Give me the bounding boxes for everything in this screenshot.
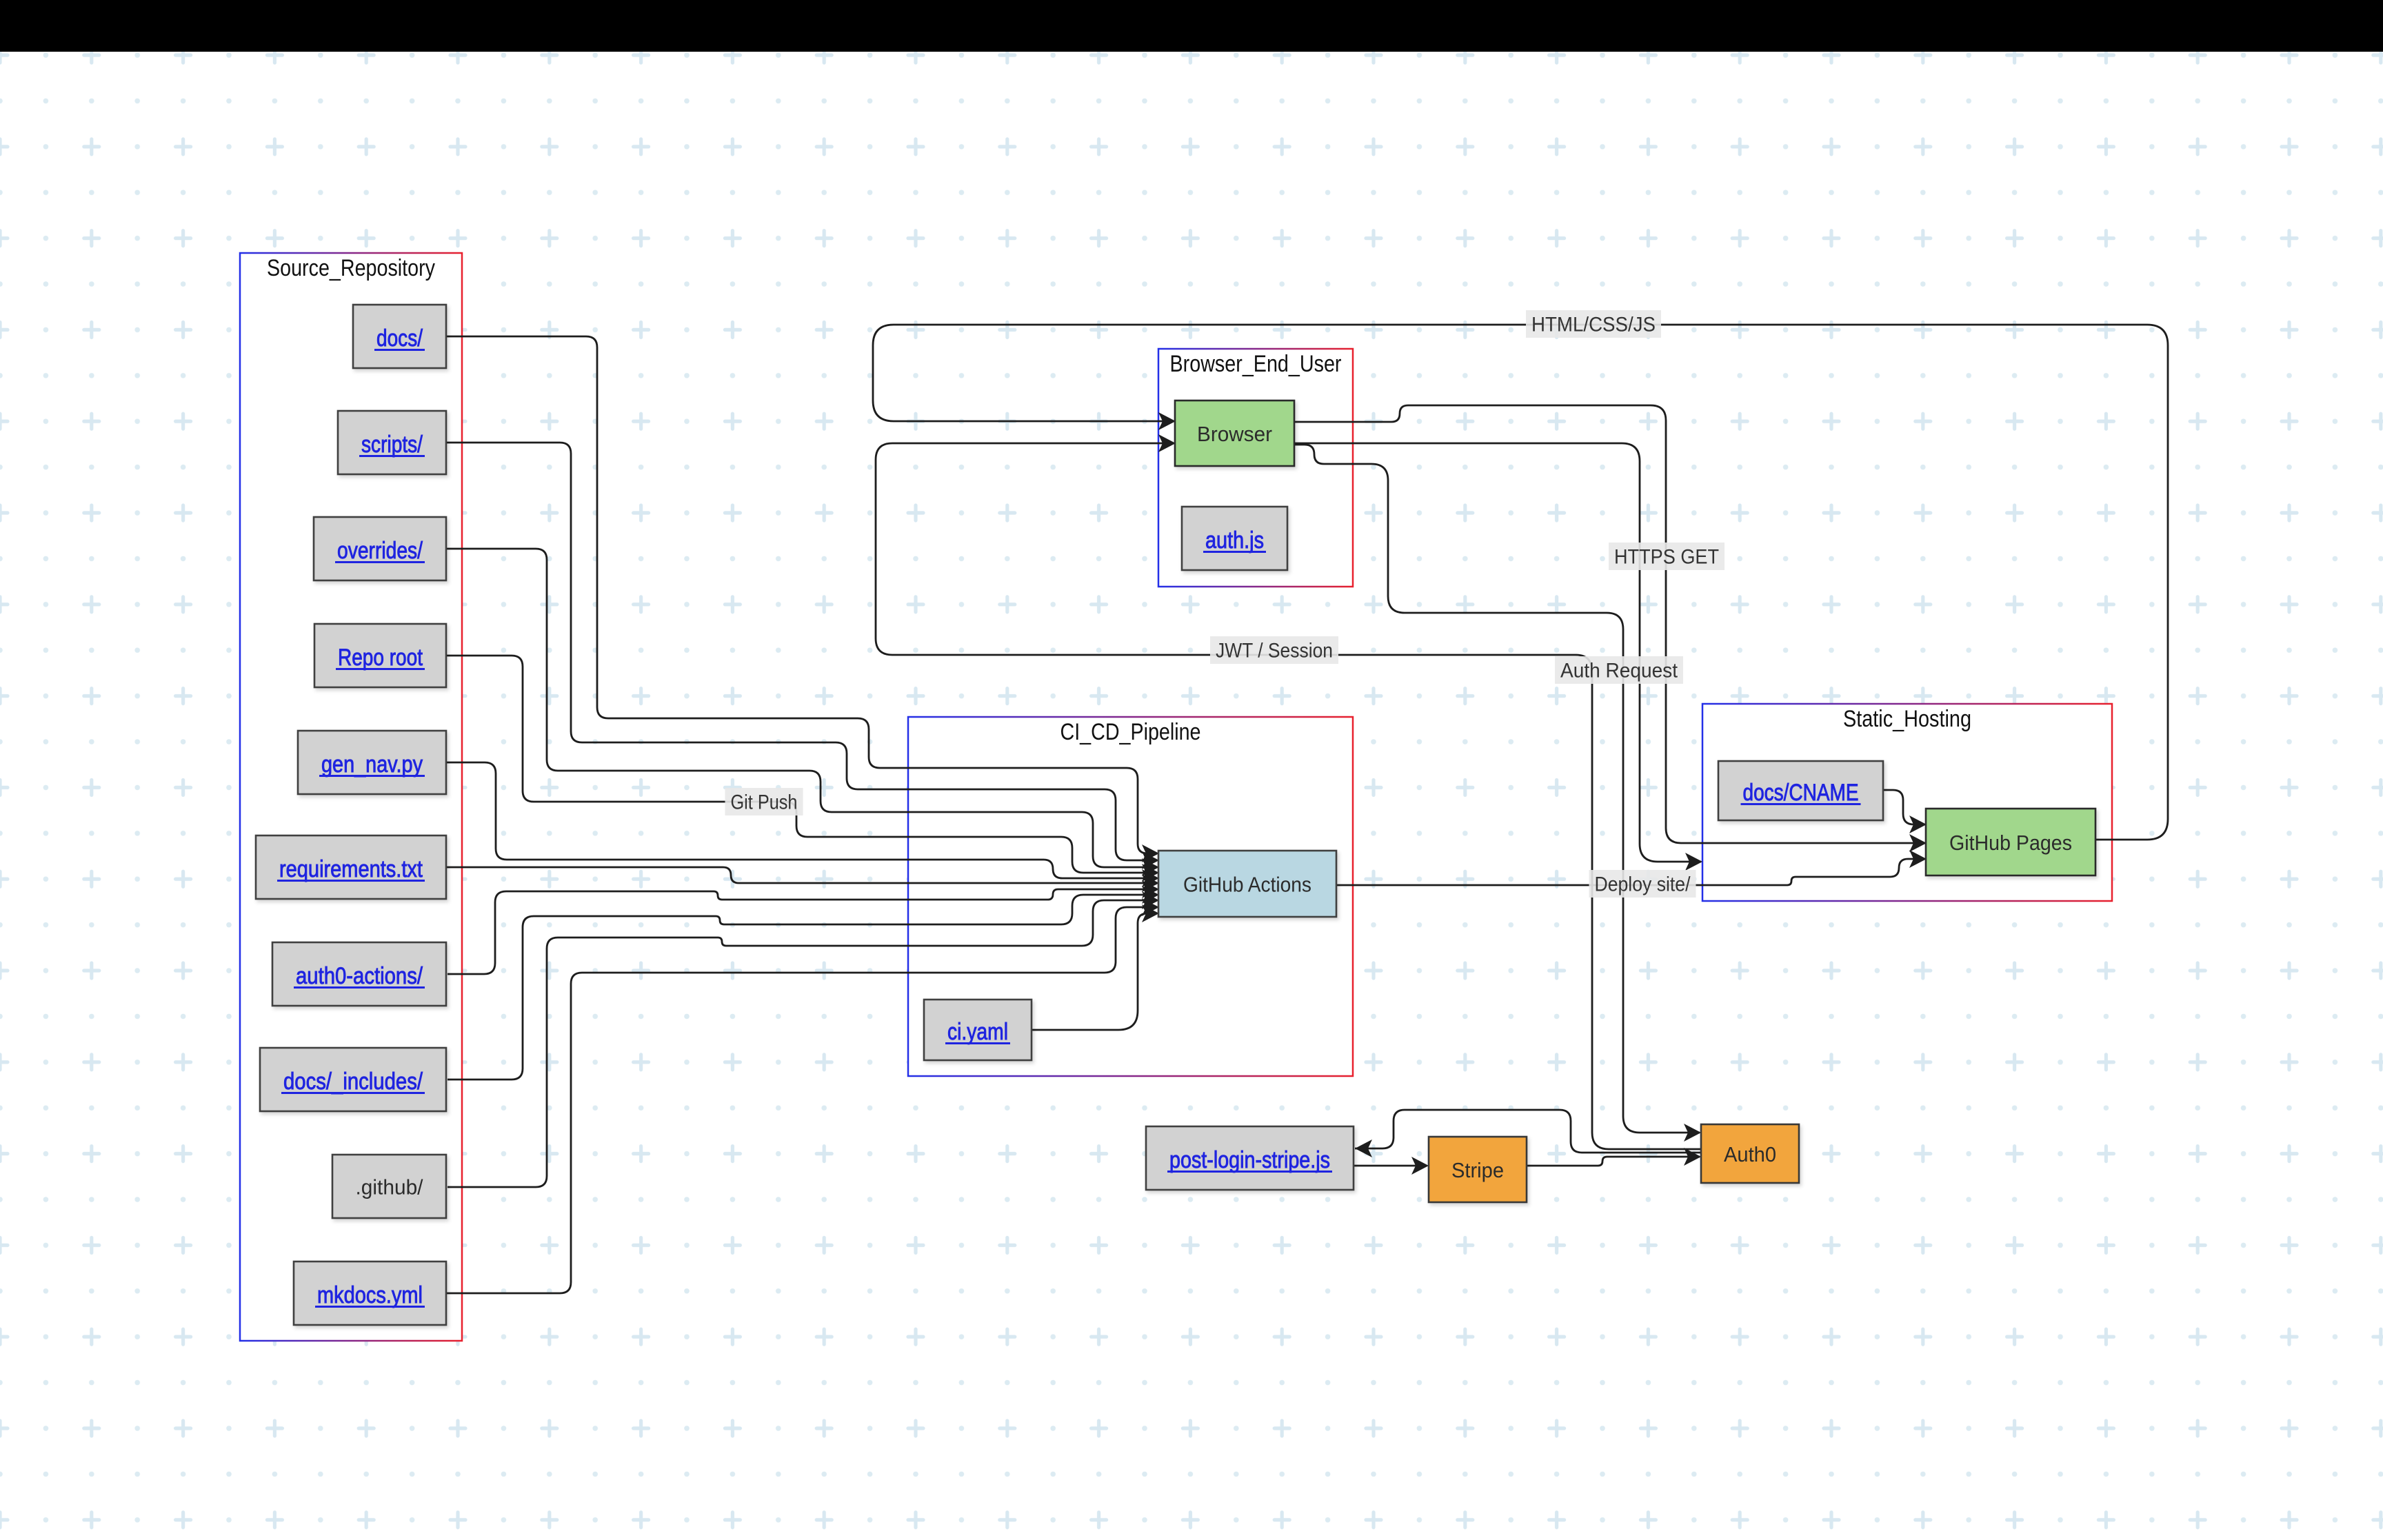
svg-text:ci.yaml: ci.yaml — [947, 1019, 1008, 1045]
label Git Push — [725, 788, 803, 815]
node post-login-stripe.js — [1146, 1126, 1354, 1190]
svg-text:requirements.txt: requirements.txt — [279, 856, 423, 882]
label Deploy site/ — [1589, 870, 1696, 898]
svg-text:post-login-stripe.js: post-login-stripe.js — [1169, 1147, 1330, 1173]
svg-text:Auth Request: Auth Request — [1560, 660, 1678, 682]
wire edge docs/ to GitHub Actions — [446, 336, 1157, 853]
node mkdocs.yml — [294, 1262, 446, 1325]
node auth0-actions/ — [272, 942, 446, 1006]
svg-text:overrides/: overrides/ — [337, 538, 423, 564]
node gen_nav.py — [298, 731, 446, 794]
label Auth Request — [1555, 656, 1683, 684]
node overrides/ — [314, 517, 446, 580]
subgraph container Browser_End_User — [1158, 349, 1353, 587]
svg-text:JWT / Session: JWT / Session — [1216, 640, 1333, 662]
node ci.yaml — [924, 1000, 1032, 1060]
svg-text:gen_nav.py: gen_nav.py — [321, 751, 423, 778]
wire edge auth0-actions/ to GitHub Actions — [448, 889, 1157, 974]
subgraph container Source_Repository — [240, 253, 462, 1341]
svg-text:Deploy site/: Deploy site/ — [1595, 873, 1691, 896]
wire edge Stripe to Auth0 — [1527, 1157, 1700, 1166]
wire edge mkdocs.yml to GitHub Actions — [446, 907, 1157, 1293]
wire edge GitHub Pages to Browser (HTML/CSS/JS) — [873, 325, 2168, 840]
svg-text:auth0-actions/: auth0-actions/ — [296, 963, 423, 989]
wire edge overrides/ to GitHub Actions — [446, 549, 1157, 867]
arrowheads into Browser — [1158, 412, 1176, 430]
node Browser — [1175, 401, 1294, 466]
svg-text:scripts/: scripts/ — [361, 432, 423, 458]
wire edge Browser to GitHub Pages (HTTPS GET) — [1294, 405, 1924, 843]
svg-text:auth.js: auth.js — [1205, 527, 1264, 554]
node GitHub Actions — [1158, 851, 1336, 917]
wire edge requirements.txt to GitHub Actions — [446, 867, 1157, 883]
wire edge scripts/ to GitHub Actions — [446, 443, 1157, 860]
svg-text:GitHub Pages: GitHub Pages — [1949, 831, 2072, 855]
label JWT / Session — [1210, 636, 1338, 664]
wire edge .github/ to GitHub Actions — [448, 900, 1157, 1187]
node docs/CNAME — [1718, 761, 1883, 820]
node GitHub Pages — [1926, 809, 2095, 875]
subgraph container Static_Hosting — [1702, 704, 2112, 901]
arrowheads into GitHub Pages — [1909, 815, 1927, 833]
node Stripe — [1429, 1137, 1527, 1202]
svg-text:Browser_End_User: Browser_End_User — [1170, 351, 1342, 377]
svg-text:GitHub Actions: GitHub Actions — [1183, 873, 1311, 897]
wire edge Auth0 to post-login-stripe.js — [1355, 1110, 1701, 1153]
arrowhead into Static_Hosting — [1685, 853, 1702, 871]
arrowheads into Auth0 — [1684, 1124, 1701, 1142]
arrowheads into GitHub Actions — [1142, 844, 1159, 862]
wire edge GitHub Actions to GitHub Pages (Deploy site/) — [1336, 859, 1924, 885]
svg-text:HTTPS GET: HTTPS GET — [1614, 546, 1719, 569]
wire edge Browser to Auth0 (Auth Request) — [1294, 445, 1700, 1133]
wire edge gen_nav.py to GitHub Actions — [446, 762, 1157, 878]
top black bar — [0, 0, 2383, 52]
svg-text:HTML/CSS/JS: HTML/CSS/JS — [1531, 314, 1656, 336]
svg-text:.github/: .github/ — [356, 1175, 423, 1199]
subgraph container CI_CD_Pipeline — [908, 717, 1353, 1076]
svg-text:Source_Repository: Source_Repository — [267, 255, 435, 281]
svg-text:Stripe: Stripe — [1451, 1158, 1504, 1182]
node auth.js — [1182, 507, 1287, 570]
svg-text:CI_CD_Pipeline: CI_CD_Pipeline — [1060, 719, 1201, 745]
wire edge ci.yaml to GitHub Actions — [1032, 913, 1157, 1030]
svg-text:mkdocs.yml: mkdocs.yml — [317, 1282, 423, 1308]
node docs/ — [353, 305, 446, 368]
label HTML/CSS/JS — [1526, 310, 1661, 338]
wire edge post-login-stripe.js to Stripe — [1354, 1165, 1427, 1167]
node Auth0 — [1701, 1124, 1799, 1183]
svg-text:docs/_includes/: docs/_includes/ — [283, 1068, 423, 1095]
svg-text:Browser: Browser — [1197, 422, 1272, 446]
node scripts/ — [338, 411, 446, 474]
svg-text:Git Push: Git Push — [731, 791, 798, 814]
svg-text:Auth0: Auth0 — [1724, 1142, 1776, 1166]
svg-text:Static_Hosting: Static_Hosting — [1843, 706, 1971, 732]
wire edge docs/_includes/ to GitHub Actions — [448, 895, 1157, 1080]
node .github/ — [332, 1155, 446, 1218]
node Repo root — [314, 624, 446, 687]
wire edge Auth0 to Browser (JWT / Session) — [876, 443, 1701, 1149]
arrowhead into post-login-stripe.js — [1355, 1139, 1372, 1157]
node docs/_includes/ — [260, 1048, 446, 1111]
svg-text:Repo root: Repo root — [338, 645, 423, 671]
node requirements.txt — [256, 835, 446, 899]
svg-text:docs/: docs/ — [376, 325, 423, 352]
wire edge Browser to Static_Hosting — [1294, 443, 1701, 862]
arrowhead into Stripe — [1411, 1157, 1429, 1175]
svg-text:docs/CNAME: docs/CNAME — [1743, 780, 1859, 806]
wire edge docs/CNAME to GitHub Pages — [1883, 790, 1924, 824]
wire edge Repo root to GitHub Actions (Git Push) — [446, 656, 1157, 873]
label HTTPS GET — [1609, 543, 1725, 570]
